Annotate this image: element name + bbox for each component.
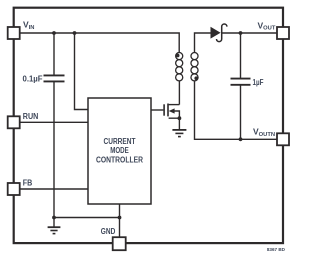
svg-text:1µF: 1µF (253, 78, 264, 87)
pin VIN (8, 27, 20, 39)
pin GND (113, 237, 126, 250)
capacitor 0.1uF (44, 75, 65, 81)
node junction dot VOUT rail (239, 31, 243, 35)
node junction dot on VIN rail (cap branch) (52, 31, 56, 35)
pin VOUT (277, 27, 289, 39)
svg-text:RUN: RUN (23, 112, 39, 121)
pin FB (8, 183, 20, 195)
capacitor 1uF (231, 79, 251, 85)
transformer T1 primary winding (176, 53, 183, 81)
ground rail wire (54, 217, 120, 219)
wire Q1 drain up to transformer primary bottom (178, 81, 180, 105)
node junction dot VOUTN rail (239, 137, 243, 141)
ground symbol left (48, 218, 61, 234)
svg-text:MODE: MODE (110, 146, 129, 155)
svg-text:8367 BD: 8367 BD (267, 247, 286, 252)
node junction dot ground rail right (118, 216, 122, 220)
wire VIN dot2 to controller left (75, 33, 89, 110)
wire controller GND down to GND pin (119, 204, 121, 238)
wire VIN rail to transformer primary top (20, 33, 180, 53)
transformer T1 secondary winding (191, 53, 198, 81)
wire capacitor C1 bottom to ground rail (53, 81, 55, 217)
svg-text:CONTROLLER: CONTROLLER (96, 155, 143, 164)
ground symbol at Q1 source (172, 118, 186, 136)
wire FB to controller (20, 188, 88, 190)
wire diode cathode to VOUT pin (222, 32, 277, 34)
wire gate from controller to Q1 (151, 109, 163, 111)
node junction dot Q1 source (178, 116, 182, 120)
wire VIN dot to capacitor C1 top (53, 33, 55, 75)
transistor Q1 NMOS (164, 104, 179, 119)
frame border (14, 8, 283, 243)
wire secondary bottom to VOUTN pin (195, 81, 278, 139)
diode D1 (211, 24, 227, 42)
op-amp U1 current mode controller box (88, 98, 151, 204)
wire capacitor C2 bottom to VOUTN rail (240, 85, 242, 140)
node junction dot ground rail left (52, 216, 56, 220)
wire secondary top to diode anode (195, 33, 211, 53)
transformer T1 primary phase dot (176, 54, 180, 58)
svg-text:0.1µF: 0.1µF (23, 74, 43, 83)
svg-text:CURRENT: CURRENT (104, 137, 136, 146)
svg-text:FB: FB (23, 179, 33, 188)
wire VOUT dot down to capacitor C2 (240, 33, 242, 78)
pin VOUTN (277, 133, 289, 145)
transformer T1 secondary phase dot (194, 76, 198, 80)
node junction dot on VIN rail (controller supply branch) (73, 31, 77, 35)
svg-text:GND: GND (101, 227, 116, 236)
pin RUN (8, 116, 20, 128)
wire RUN to controller (20, 121, 88, 123)
